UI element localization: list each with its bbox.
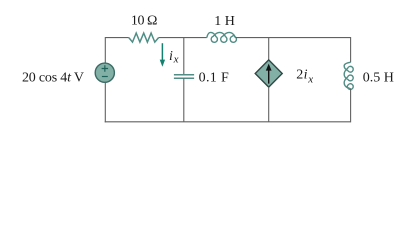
dependent source arrow bbox=[268, 69, 270, 83]
wire dependent source branch lower bbox=[268, 87, 270, 122]
svg-text:10 Ω: 10 Ω bbox=[131, 14, 157, 29]
inductor L2 0.5H coil bbox=[344, 62, 353, 89]
wire top left segment bbox=[105, 37, 129, 39]
inductor L1 1H coil bbox=[207, 32, 237, 42]
svg-text:20 cos 4t V: 20 cos 4t V bbox=[22, 70, 84, 85]
wire left vertical top bbox=[104, 37, 106, 63]
svg-text:2ix: 2ix bbox=[296, 68, 313, 86]
wire capacitor branch lower bbox=[183, 78, 185, 121]
svg-text:ix: ix bbox=[169, 49, 179, 65]
svg-text:1 H: 1 H bbox=[214, 14, 235, 29]
voltage source V1 circle bbox=[95, 63, 114, 82]
wire right vertical top bbox=[350, 37, 352, 62]
wire top mid segment bbox=[159, 37, 207, 39]
wire capacitor branch upper bbox=[183, 38, 185, 75]
wire left vertical bottom bbox=[104, 82, 106, 122]
voltage source plus sign bbox=[102, 65, 109, 71]
resistor R 10ohm zigzag bbox=[129, 33, 159, 42]
capacitor C1 0.1F plates bbox=[174, 75, 194, 79]
wire top right segment bbox=[235, 37, 350, 39]
svg-text:0.1 F: 0.1 F bbox=[199, 71, 230, 86]
voltage source minus sign bbox=[102, 76, 108, 78]
dependent current source diamond 2ix bbox=[255, 60, 282, 87]
svg-text:0.5 H: 0.5 H bbox=[363, 71, 394, 86]
wire right vertical bottom bbox=[350, 89, 352, 123]
current arrow ix bbox=[161, 43, 163, 60]
wire dependent source branch upper bbox=[268, 38, 270, 61]
wire bottom bbox=[105, 121, 351, 123]
